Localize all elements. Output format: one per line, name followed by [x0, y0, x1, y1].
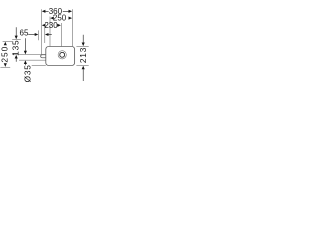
dimension 250 left arrow [50, 17, 54, 20]
extension line K3 (basin front edge extended left) [32, 64, 46, 66]
dimension 250 right arrow [69, 17, 73, 20]
extension line K1 (lug top edge extended left) [12, 54, 46, 56]
svg-text:135: 135 [11, 40, 21, 56]
left dimension 250 up arrow [4, 42, 7, 46]
svg-text:250: 250 [0, 46, 9, 63]
svg-text:Ø35: Ø35 [23, 64, 33, 82]
dimension 65 leader tail [28, 34, 35, 36]
left dimension 250 down arrow [4, 63, 7, 67]
dimension 213 top tail [82, 35, 84, 43]
dimension diameter 35 top tail [24, 38, 26, 51]
extension line for 65 dim left [38, 30, 40, 40]
dimension 65 right tail [49, 34, 52, 36]
dimension diameter 35 up arrow [24, 60, 27, 64]
dimension 65 left-pointing arrow [45, 33, 49, 36]
extension line for 65 dim right [44, 27, 46, 43]
dimension 360 left arrow [42, 10, 46, 13]
extension line D (right end of 230 dim) [61, 23, 63, 46]
dimension 213 up arrow [82, 66, 85, 70]
tap hole outer circle [58, 51, 66, 59]
extension line I (bottom of left 250 dim) [0, 66, 10, 68]
dimension 213 down arrow [82, 43, 85, 47]
dimension diameter 35 bottom tail [24, 64, 26, 65]
extension line A (lug tip extended up; left end of 360 and 230 dims) [41, 9, 43, 54]
tap hole inner octagon [60, 52, 65, 57]
extension line H (top of left 250 dim) [3, 40, 12, 42]
extension line F (top right, 213 dim) [76, 45, 88, 47]
dimension 230 left arrow [42, 24, 46, 27]
extension line for 250 dim left end [49, 17, 51, 47]
basin outline (rounded rectangle, top view) [46, 47, 75, 66]
svg-text:65: 65 [20, 28, 29, 37]
dimension 230 right arrow [57, 24, 61, 27]
mounting lug on basin left edge [41, 55, 46, 58]
extension line J (top of 135 dim) [12, 38, 21, 40]
dimension 135 top tail [15, 27, 17, 36]
svg-text:230: 230 [44, 21, 58, 30]
dimension 213 bottom tail [82, 69, 84, 81]
svg-text:213: 213 [78, 47, 88, 63]
extension line B (right end of 360 and 250 dims) [71, 9, 73, 46]
dimension 135 bottom up arrow [15, 55, 18, 59]
dimension 360 left tail [45, 10, 48, 12]
dimension diameter 35 down arrow [24, 51, 27, 55]
extension line K2 (measuring line below lug) [19, 59, 46, 61]
dimension 135 top down arrow [15, 36, 18, 40]
dimension 360 right tail [63, 10, 69, 12]
extension line G (bottom right, 213 dim) [76, 64, 88, 66]
dimension 65 right-pointing arrow [35, 33, 39, 36]
dimension 360 right arrow [69, 10, 73, 13]
dimension 135 bottom tail [15, 58, 17, 62]
